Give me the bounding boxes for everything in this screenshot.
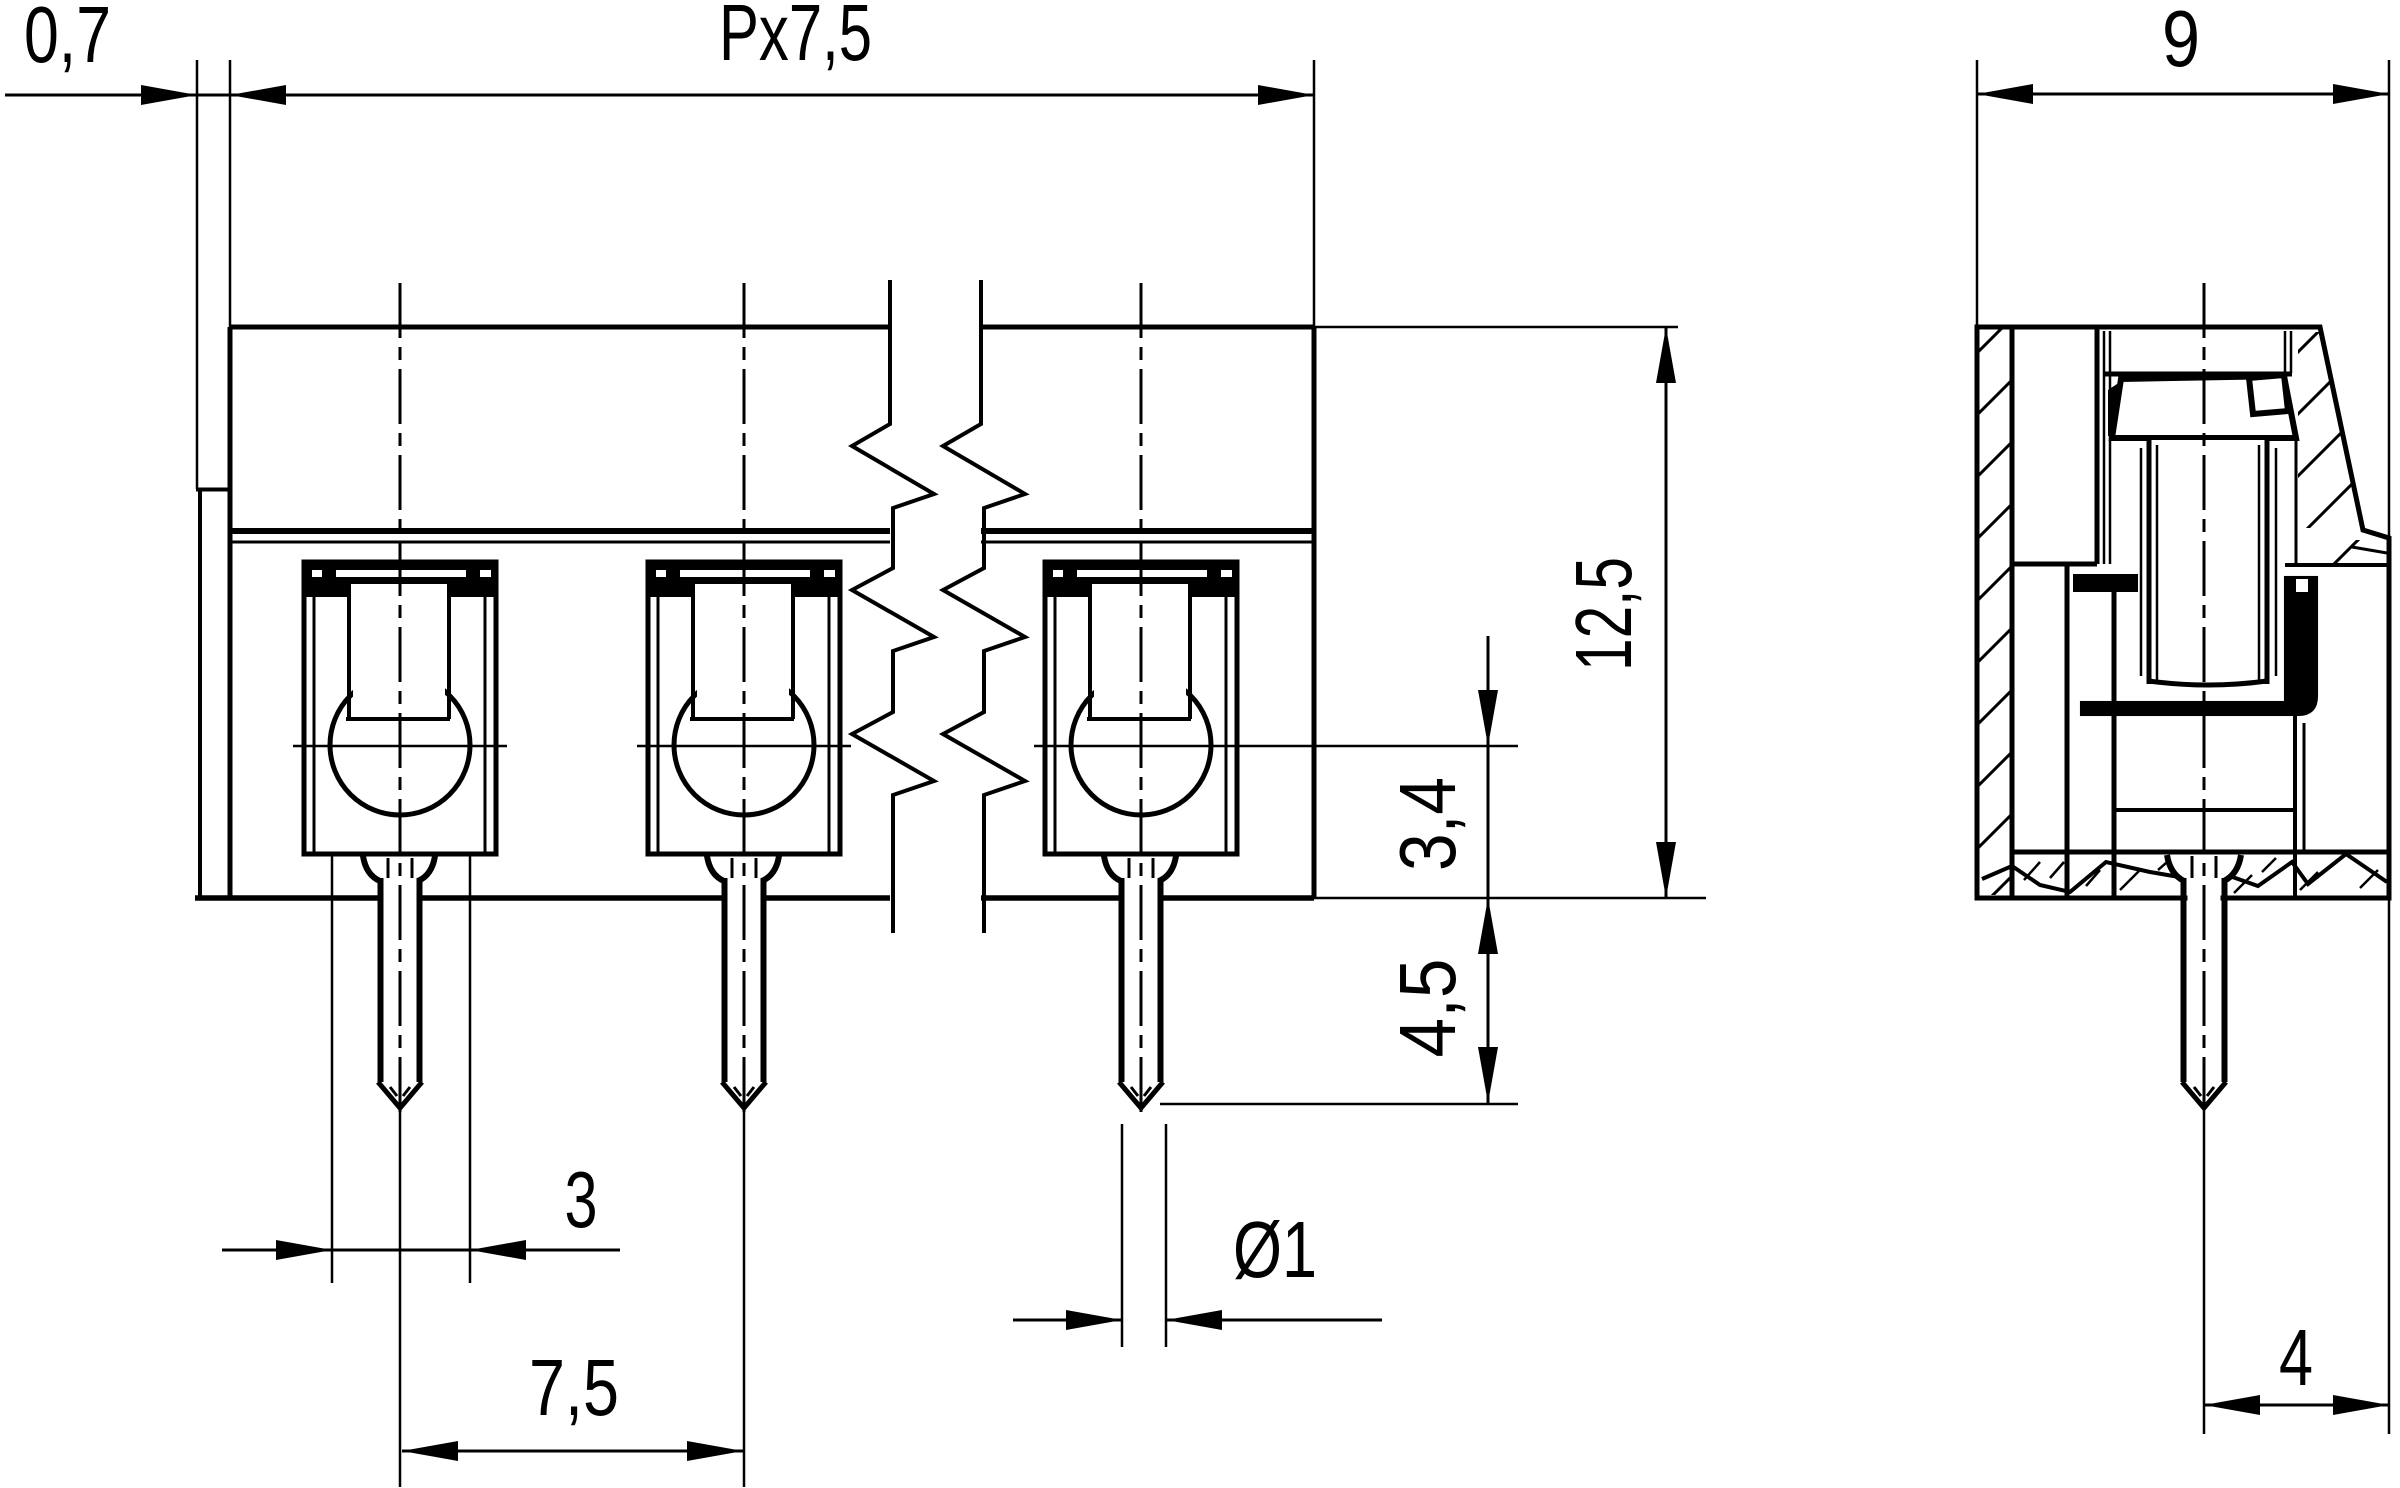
terminal top clamp band <box>306 563 494 584</box>
terminal centre cross line <box>637 745 851 748</box>
terminal inner walls <box>1054 595 1057 852</box>
side pin shaft <box>2188 878 2221 1082</box>
centre line pole 2 <box>743 283 746 1112</box>
terminal inner walls <box>657 595 660 852</box>
terminal centre cross line <box>1034 745 1518 748</box>
dimension 3,4 <box>1487 636 1490 1103</box>
body right edge <box>1312 327 1317 898</box>
terminal top clamp band <box>1047 563 1235 584</box>
side cavity step <box>2012 562 2097 567</box>
body bottom edge <box>195 895 890 901</box>
front view: top dimension line 0,7 and Px7,5 <box>5 94 1314 97</box>
screw head <box>2112 376 2296 438</box>
screw shank lines <box>691 584 695 719</box>
extension line body top right <box>1314 326 1678 329</box>
side pin funnel <box>2166 855 2242 881</box>
side inner wall line <box>2010 327 2015 896</box>
screw shank lines <box>347 584 351 719</box>
dimension 4,5 <box>1478 1047 1498 1103</box>
wire clamp right and bottom bars <box>2080 576 2318 716</box>
side body outline <box>1977 327 2389 898</box>
extension lines for dim diameter 1 <box>1121 1124 1124 1347</box>
svg-text:3: 3 <box>565 1155 598 1244</box>
pin funnel <box>707 856 724 881</box>
extension line body right <box>1313 60 1316 327</box>
svg-text:3,4: 3,4 <box>1383 777 1472 871</box>
wire cavity right wall <box>2293 715 2297 896</box>
side cavity right wall upper <box>2095 327 2100 564</box>
side cavity lower wall <box>2065 564 2070 896</box>
broken-out section jag band <box>1982 862 2185 892</box>
pin funnel <box>1104 856 1121 881</box>
left flange step <box>196 488 230 492</box>
wire clamp circle <box>1071 675 1211 815</box>
extension line side right <box>2388 60 2391 536</box>
side view top dimension 9 <box>1977 93 2389 96</box>
terminal inner walls <box>313 595 316 852</box>
extension line pin tip <box>1160 1103 1518 1106</box>
dimension diameter 1 <box>1013 1319 1122 1322</box>
svg-text:0,7: 0,7 <box>24 0 111 79</box>
extension line left flange top <box>196 60 199 489</box>
body left edge <box>228 327 233 898</box>
extension line side left <box>1976 60 1979 327</box>
terminal box outline at x=400 <box>304 562 496 854</box>
centre line pole 3 <box>1140 283 1143 1115</box>
pin funnel <box>363 856 380 881</box>
terminal centre cross line <box>293 745 507 748</box>
left flange edge <box>198 489 202 896</box>
screw chord line <box>1087 717 1191 721</box>
break line left <box>852 280 934 933</box>
svg-text:7,5: 7,5 <box>529 1343 619 1432</box>
dimension 4 <box>2204 1404 2389 1407</box>
wire clamp circle <box>330 675 470 815</box>
dimension 12,5 <box>1665 327 1668 898</box>
dimension 7,5 <box>402 1450 743 1453</box>
pin point cone <box>1119 1082 1163 1108</box>
pin point cone <box>378 1082 422 1108</box>
terminal top clamp band <box>650 563 838 584</box>
dimension 3 <box>222 1249 620 1252</box>
screw head top line <box>2104 372 2292 377</box>
wire clamp top bar <box>2073 574 2138 592</box>
screw channel left walls <box>2103 331 2106 564</box>
svg-text:Ø1: Ø1 <box>1233 1205 1317 1294</box>
centre line pole 1 <box>399 283 402 1112</box>
chamfer ledge line <box>2352 547 2387 553</box>
svg-text:4,5: 4,5 <box>1383 959 1472 1058</box>
wire clamp circle <box>674 675 814 815</box>
side pin cone <box>2182 1082 2226 1108</box>
body top edge <box>230 325 890 330</box>
screw head slot <box>2249 375 2288 414</box>
solder pin shaft <box>384 878 417 1082</box>
svg-text:Px7,5: Px7,5 <box>719 0 872 77</box>
side right extension to dim 4 <box>2388 898 2391 1434</box>
screw shank <box>2149 440 2267 684</box>
screw chord line <box>690 717 794 721</box>
terminal box outline at x=1141 <box>1045 562 1237 854</box>
svg-text:9: 9 <box>2162 0 2200 83</box>
body mid step line thin <box>230 541 890 544</box>
solder pin shaft <box>1125 878 1158 1082</box>
svg-text:4: 4 <box>2279 1313 2313 1402</box>
extension lines for dim 3 <box>331 855 334 1283</box>
pin point cone <box>722 1082 766 1108</box>
svg-text:12,5: 12,5 <box>1559 557 1648 671</box>
solder pin shaft <box>728 878 761 1082</box>
right step line <box>2285 563 2389 567</box>
side body floor line <box>2012 850 2389 855</box>
screw head left wedge <box>2108 382 2120 436</box>
break line right <box>943 280 1025 933</box>
screw chord line <box>346 717 450 721</box>
screw channel right walls <box>2284 331 2287 373</box>
body mid step line thick <box>230 528 890 534</box>
extension line body left <box>229 60 232 327</box>
wire cavity bottom <box>2114 808 2295 812</box>
wire cavity left wall <box>2112 592 2117 896</box>
screw shank lines <box>1088 584 1092 719</box>
terminal box outline at x=744 <box>648 562 840 854</box>
extension line body bottom right <box>1314 897 1706 900</box>
side centre line <box>2203 283 2206 1110</box>
